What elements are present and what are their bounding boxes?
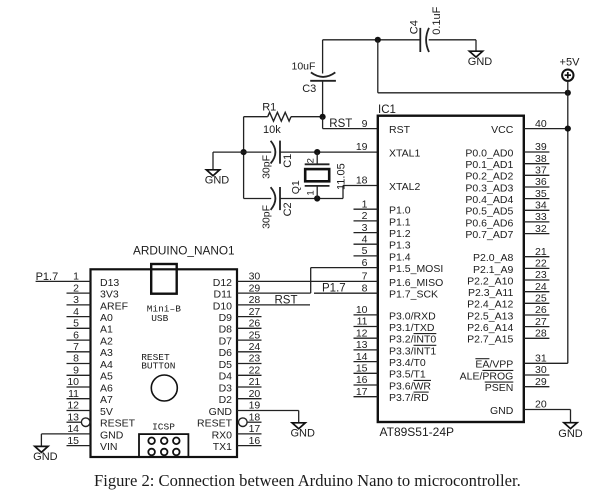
wire rail to C1 (244, 151, 272, 153)
svg-text:GND: GND (290, 427, 315, 439)
svg-text:31: 31 (535, 353, 547, 365)
IC1 pin 14 P3.4/T0 (354, 351, 426, 369)
svg-text:17: 17 (356, 386, 368, 398)
label ICSP (152, 421, 175, 432)
svg-text:A0: A0 (100, 312, 113, 324)
svg-text:22: 22 (535, 258, 547, 270)
svg-text:30pF: 30pF (261, 205, 273, 229)
IC1 pin 25 P2.4_A12 (467, 293, 549, 311)
ARDUINO_NANO1 pin 14 GND (41, 423, 123, 446)
svg-text:A3: A3 (100, 347, 113, 359)
svg-text:A4: A4 (100, 359, 113, 371)
IC1 pin 2 P1.1 (354, 210, 411, 228)
svg-text:P1.7_SCK: P1.7_SCK (389, 289, 438, 301)
crystal Q1 (305, 152, 330, 198)
svg-text:24: 24 (249, 341, 261, 353)
capacitor C4 (420, 28, 429, 52)
wire P1.7 to IC pin 8 (314, 292, 378, 294)
svg-text:P1.5_MOSI: P1.5_MOSI (389, 263, 443, 275)
IC1 pin 4 P1.3 (354, 233, 411, 251)
icsp header (139, 434, 188, 457)
svg-text:19: 19 (249, 400, 261, 412)
svg-text:AT89S51-24P: AT89S51-24P (380, 425, 455, 439)
svg-text:13: 13 (67, 411, 79, 423)
ARDUINO_NANO1 pin 2 3V3 (67, 282, 119, 300)
svg-text:TX1: TX1 (213, 441, 232, 453)
svg-text:EA/VPP: EA/VPP (475, 359, 513, 371)
wire C1 to XTAL1 (280, 151, 378, 153)
svg-text:P3.6/WR: P3.6/WR (389, 380, 431, 392)
label 30pF C1 (261, 155, 273, 179)
IC1 pin 1 P1.0 (354, 198, 411, 216)
capacitor C1 (271, 141, 280, 164)
svg-text:ALE/PROG: ALE/PROG (460, 370, 514, 382)
svg-text:R1: R1 (262, 101, 276, 113)
svg-text:10uF: 10uF (292, 60, 316, 72)
svg-text:11: 11 (357, 316, 368, 328)
wire rail to C2 (244, 198, 272, 200)
svg-text:GND: GND (33, 451, 58, 463)
wire RST jog to IC pin 9 (323, 117, 378, 129)
capacitor C2 (271, 187, 280, 210)
label 0.1uF (431, 6, 443, 34)
net label P1.7 at nano pin 1 (36, 271, 59, 283)
svg-text:23: 23 (535, 269, 547, 281)
IC1 pin 8 P1.7_SCK (362, 282, 438, 300)
IC1 pin 24 P2.3_A11 (468, 281, 549, 299)
IC1 pin 37 P0.2_AD2 (465, 165, 549, 183)
IC1 pin 21 P2.0_A8 (473, 246, 549, 264)
svg-text:D3: D3 (219, 382, 233, 394)
svg-text:P3.3/INT1: P3.3/INT1 (389, 345, 436, 357)
ARDUINO_NANO1 pin 18 RESET (197, 411, 262, 429)
svg-text:34: 34 (535, 200, 547, 212)
svg-text:16: 16 (249, 435, 261, 447)
svg-text:P0.0_AD0: P0.0_AD0 (465, 147, 513, 159)
svg-text:P2.6_A14: P2.6_A14 (467, 322, 513, 334)
label AT89S51-24P (380, 425, 455, 439)
ARDUINO_NANO1 pin 22 D4 (219, 365, 262, 383)
svg-text:40: 40 (535, 118, 547, 130)
svg-text:13: 13 (356, 339, 368, 351)
svg-text:C4: C4 (408, 20, 420, 34)
svg-text:12: 12 (356, 327, 368, 339)
svg-text:P0.3_AD3: P0.3_AD3 (465, 182, 513, 194)
svg-text:0.1uF: 0.1uF (431, 6, 443, 34)
svg-text:Figure 2: Connection between A: Figure 2: Connection between Arduino Nan… (94, 471, 521, 490)
svg-text:P3.2/INT0: P3.2/INT0 (389, 334, 436, 346)
svg-text:P0.7_AD7: P0.7_AD7 (465, 229, 513, 241)
svg-text:P2.0_A8: P2.0_A8 (473, 252, 513, 264)
svg-text:24: 24 (535, 281, 547, 293)
ARDUINO_NANO1 pin 30 D12 (213, 271, 378, 289)
svg-text:4: 4 (73, 306, 79, 318)
svg-text:33: 33 (535, 211, 547, 223)
module ARDUINO_NANO1 body (91, 269, 238, 457)
wire junction to +5V rail (378, 92, 568, 94)
svg-text:A2: A2 (100, 336, 113, 348)
svg-text:4: 4 (362, 233, 368, 245)
svg-text:28: 28 (249, 294, 261, 306)
svg-text:29: 29 (249, 282, 261, 294)
ARDUINO_NANO1 pin 16 TX1 (213, 435, 262, 453)
svg-text:D12: D12 (213, 277, 232, 289)
svg-text:D10: D10 (213, 300, 232, 312)
IC1 pin 13 P3.3/INT1 (354, 339, 437, 357)
power +5V (560, 56, 581, 81)
svg-text:5: 5 (73, 318, 79, 330)
IC1 pin 12 P3.2/INT0 (354, 327, 437, 345)
net label RST at nano pin 28 (275, 295, 298, 307)
ARDUINO_NANO1 pin 4 A0 (67, 306, 114, 324)
IC1 pin 15 P3.5/T1 (354, 363, 426, 381)
ARDUINO_NANO1 pin 10 A6 (67, 376, 114, 394)
IC1 pin 19 XTAL1 (356, 141, 421, 159)
svg-text:P2.4_A12: P2.4_A12 (467, 299, 513, 311)
svg-text:11: 11 (68, 388, 79, 400)
ARDUINO_NANO1 pin 25 D7 (219, 329, 262, 347)
ARDUINO_NANO1 pin 1 D13 (36, 271, 120, 289)
label 10k (263, 124, 281, 136)
pin 1 crystal (305, 190, 316, 195)
ARDUINO_NANO1 pin 5 A1 (67, 318, 114, 336)
svg-text:38: 38 (535, 153, 547, 165)
svg-text:D8: D8 (219, 324, 233, 336)
svg-text:D11: D11 (214, 289, 233, 301)
pin 2 crystal (305, 158, 316, 163)
ARDUINO_NANO1 pin 26 D8 (219, 318, 262, 336)
svg-text:GND: GND (490, 405, 514, 417)
svg-text:A7: A7 (100, 394, 113, 406)
label 10uF (292, 60, 316, 72)
ARDUINO_NANO1 pin 6 A2 (67, 329, 114, 347)
svg-text:P1.1: P1.1 (389, 216, 411, 228)
svg-text:+5V: +5V (560, 56, 581, 68)
ARDUINO_NANO1 pin 7 A3 (67, 341, 114, 359)
label 11.05 (336, 163, 348, 190)
svg-text:RX0: RX0 (212, 429, 233, 441)
IC1 pin 9 RST (362, 118, 411, 136)
svg-text:P1.7: P1.7 (322, 282, 346, 294)
svg-text:A5: A5 (100, 371, 113, 383)
ARDUINO_NANO1 pin 23 D5 (219, 353, 262, 371)
svg-text:37: 37 (535, 165, 547, 177)
IC1 pin 35 P0.4_AD4 (465, 188, 549, 206)
svg-text:6: 6 (73, 329, 79, 341)
capacitor C3 (310, 72, 336, 80)
IC1 pin 3 P1.2 (354, 222, 411, 240)
junction top rail (375, 37, 381, 43)
svg-text:GND: GND (205, 174, 230, 186)
svg-text:P2.7_A15: P2.7_A15 (467, 334, 513, 346)
svg-text:GND: GND (468, 56, 493, 68)
svg-text:P0.4_AD4: P0.4_AD4 (465, 194, 513, 206)
svg-text:10k: 10k (263, 124, 281, 136)
svg-text:RST: RST (389, 124, 411, 136)
svg-text:25: 25 (249, 329, 261, 341)
ARDUINO_NANO1 pin 8 A4 (67, 353, 114, 371)
svg-text:2: 2 (73, 282, 79, 294)
svg-text:XTAL1: XTAL1 (389, 147, 420, 159)
svg-text:D13: D13 (100, 277, 119, 289)
svg-text:P3.1/TXD: P3.1/TXD (389, 322, 435, 334)
svg-text:P1.7: P1.7 (36, 271, 59, 283)
IC1 pin 39 P0.0_AD0 (465, 141, 549, 159)
svg-text:3V3: 3V3 (100, 289, 119, 301)
svg-text:A6: A6 (100, 382, 113, 394)
svg-text:VIN: VIN (100, 441, 118, 453)
svg-text:8: 8 (73, 353, 79, 365)
svg-text:15: 15 (356, 363, 368, 375)
svg-text:14: 14 (356, 351, 368, 363)
junction crystal pin2 node (314, 149, 320, 155)
svg-text:D9: D9 (219, 312, 233, 324)
IC1 pin 16 P3.6/WR (354, 374, 432, 392)
svg-text:5: 5 (362, 245, 368, 257)
svg-text:C2: C2 (282, 202, 294, 216)
svg-text:P1.6_MISO: P1.6_MISO (389, 277, 443, 289)
svg-text:20: 20 (535, 399, 547, 411)
svg-text:39: 39 (535, 141, 547, 153)
ARDUINO_NANO1 pin 17 RX0 (212, 423, 262, 441)
svg-text:D7: D7 (219, 336, 233, 348)
svg-text:P3.5/T1: P3.5/T1 (389, 369, 426, 381)
svg-text:36: 36 (535, 176, 547, 188)
IC1 pin 32 P0.7_AD7 (465, 223, 549, 241)
ARDUINO_NANO1 pin 29 D11 (214, 268, 378, 301)
svg-text:C1: C1 (282, 154, 294, 168)
IC1 pin 38 P0.1_AD1 (465, 153, 549, 171)
label Q1 (290, 180, 302, 194)
ARDUINO_NANO1 pin 11 A7 (67, 388, 114, 406)
svg-text:30: 30 (535, 364, 547, 376)
svg-text:16: 16 (356, 374, 368, 386)
svg-text:26: 26 (249, 318, 261, 330)
svg-text:25: 25 (535, 293, 547, 305)
svg-text:RST: RST (275, 295, 298, 307)
wire +5V down rail (567, 81, 569, 363)
svg-text:30pF: 30pF (261, 155, 273, 179)
svg-text:GND: GND (100, 429, 124, 441)
usb connector (151, 264, 177, 294)
svg-text:1: 1 (305, 190, 316, 195)
svg-text:RST: RST (329, 118, 352, 130)
ground crystal GND (205, 170, 230, 187)
svg-text:18: 18 (356, 175, 368, 187)
IC1 pin 23 P2.2_A10 (467, 269, 549, 287)
svg-text:GND: GND (558, 428, 583, 440)
wire C3 top lead (322, 40, 324, 74)
svg-text:15: 15 (67, 435, 79, 447)
IC1 pin 36 P0.3_AD3 (465, 176, 549, 194)
svg-text:7: 7 (73, 341, 79, 353)
IC1 pin 18 XTAL2 (356, 175, 421, 193)
ARDUINO_NANO1 pin 3 AREF (67, 294, 129, 312)
IC1 pin 11 P3.1/TXD (354, 316, 435, 334)
IC1 pin 27 P2.6_A14 (467, 316, 549, 334)
IC1 pin 40 VCC (491, 118, 568, 136)
IC1 pin 31 EA/VPP (475, 353, 567, 371)
IC1 pin 28 P2.7_A15 (467, 328, 549, 346)
svg-text:P1.4: P1.4 (389, 251, 411, 263)
resistor R1 (244, 112, 323, 121)
label C1 (282, 154, 294, 168)
ARDUINO_NANO1 pin 24 D6 (219, 341, 262, 359)
label 30pF C2 (261, 205, 273, 229)
svg-text:10: 10 (67, 376, 79, 388)
svg-text:C3: C3 (302, 83, 316, 95)
IC1 pin 30 ALE/PROG (460, 364, 550, 382)
svg-text:9: 9 (362, 118, 368, 130)
svg-text:P3.0/RXD: P3.0/RXD (389, 310, 436, 322)
svg-text:27: 27 (249, 306, 261, 318)
ARDUINO_NANO1 pin 28 D10 (213, 294, 310, 312)
label ARDUINO_NANO1 (133, 244, 235, 258)
svg-text:P2.5_A13: P2.5_A13 (467, 310, 513, 322)
ground IC1 GND pin 20 (558, 423, 583, 440)
svg-text:17: 17 (249, 423, 261, 435)
svg-text:20: 20 (249, 388, 261, 400)
svg-text:D6: D6 (219, 347, 233, 359)
label Mini-B USB (147, 303, 182, 324)
svg-text:2: 2 (305, 158, 316, 163)
junction RST node (320, 114, 326, 120)
wire +5V/VCC net: C3 top to C4 (323, 39, 421, 41)
wire C3 bottom lead (322, 81, 324, 117)
svg-text:30: 30 (249, 271, 261, 283)
svg-text:RESET: RESET (100, 418, 136, 430)
svg-text:XTAL2: XTAL2 (389, 181, 420, 193)
svg-text:P3.4/T0: P3.4/T0 (389, 357, 426, 369)
svg-text:14: 14 (67, 423, 79, 435)
svg-text:GND: GND (209, 406, 233, 418)
svg-text:27: 27 (535, 316, 547, 328)
ARDUINO_NANO1 pin 27 D9 (219, 306, 262, 324)
svg-text:1: 1 (362, 198, 368, 210)
svg-text:P1.3: P1.3 (389, 240, 411, 252)
IC1 pin 34 P0.5_AD5 (465, 200, 549, 218)
wire left rail (243, 117, 245, 199)
junction +5V rail (565, 90, 571, 96)
svg-text:35: 35 (535, 188, 547, 200)
svg-text:10: 10 (356, 304, 368, 316)
svg-text:19: 19 (356, 141, 368, 153)
caption (94, 471, 521, 490)
svg-text:P0.2_AD2: P0.2_AD2 (465, 171, 513, 183)
ARDUINO_NANO1 pin 15 VIN (67, 435, 118, 453)
ARDUINO_NANO1 pin 13 RESET (67, 411, 136, 429)
IC1 pin 5 P1.4 (354, 245, 411, 263)
ARDUINO_NANO1 pin 21 D3 (219, 376, 262, 394)
ground C4 (468, 51, 493, 68)
svg-text:21: 21 (535, 246, 547, 258)
IC1 pin 22 P2.1_A9 (473, 258, 549, 276)
IC1 pin 17 P3.7/RD (354, 386, 430, 404)
svg-text:BUTTON: BUTTON (141, 361, 175, 372)
ground nano GND pin 14 (33, 446, 58, 463)
ARDUINO_NANO1 pin 19 GND (209, 400, 299, 423)
svg-text:P1.0: P1.0 (389, 205, 411, 217)
svg-text:ICSP: ICSP (152, 421, 175, 432)
svg-text:P3.7/RD: P3.7/RD (389, 392, 429, 404)
label IC1 (378, 104, 396, 116)
svg-text:RESET: RESET (197, 418, 233, 430)
IC1 pin 33 P0.6_AD6 (465, 211, 549, 229)
ARDUINO_NANO1 pin 9 A5 (67, 365, 114, 383)
label R1 (262, 101, 276, 113)
svg-text:PSEN: PSEN (485, 382, 514, 394)
svg-text:USB: USB (151, 313, 168, 324)
net label RST at IC1 pin 9 (329, 118, 352, 130)
svg-text:D5: D5 (219, 359, 233, 371)
svg-text:IC1: IC1 (378, 104, 396, 116)
IC1 pin 26 P2.5_A13 (467, 304, 549, 322)
svg-text:VCC: VCC (491, 124, 514, 136)
svg-text:P0.6_AD6: P0.6_AD6 (465, 217, 513, 229)
label C4 (408, 20, 420, 34)
svg-text:29: 29 (535, 376, 547, 388)
svg-text:A1: A1 (100, 324, 113, 336)
op-amp IC1 body (AT89S51 box) (378, 116, 524, 422)
svg-text:P2.2_A10: P2.2_A10 (467, 275, 513, 287)
IC1 pin 6 P1.5_MOSI (362, 257, 444, 275)
junction VCC pin 40 (565, 126, 571, 132)
svg-text:P0.5_AD5: P0.5_AD5 (465, 206, 513, 218)
svg-text:23: 23 (249, 353, 261, 365)
ARDUINO_NANO1 pin 20 D2 (219, 388, 262, 406)
svg-text:P0.1_AD1: P0.1_AD1 (465, 159, 513, 171)
svg-text:P2.1_A9: P2.1_A9 (473, 264, 513, 276)
svg-text:9: 9 (73, 365, 79, 377)
IC1 pin 20 GND (490, 399, 571, 423)
wire junction down (377, 40, 379, 93)
svg-text:D4: D4 (219, 371, 233, 383)
svg-text:3: 3 (362, 222, 368, 234)
junction C1 node (241, 149, 247, 155)
IC1 pin 29 PSEN (485, 376, 550, 394)
ground nano GND pin 19 (290, 423, 315, 440)
junction crystal pin1 node (314, 195, 320, 201)
ARDUINO_NANO1 pin 12 5V (67, 400, 113, 418)
wire C4 to GND (429, 40, 476, 51)
svg-text:AREF: AREF (100, 300, 128, 312)
svg-text:32: 32 (535, 223, 547, 235)
svg-text:26: 26 (535, 304, 547, 316)
wire GND branch (213, 152, 244, 170)
IC1 pin 10 P3.0/RXD (354, 304, 437, 322)
svg-text:ARDUINO_NANO1: ARDUINO_NANO1 (133, 244, 235, 258)
svg-text:22: 22 (249, 365, 261, 377)
svg-text:3: 3 (73, 294, 79, 306)
svg-text:28: 28 (535, 328, 547, 340)
wire C2 to XTAL2 jog (280, 186, 378, 199)
label C3 (302, 83, 316, 95)
reset button (151, 375, 177, 401)
svg-text:21: 21 (249, 376, 261, 388)
svg-text:Q1: Q1 (290, 180, 302, 194)
svg-text:1: 1 (73, 271, 79, 283)
label C2 (282, 202, 294, 216)
svg-text:P2.3_A11: P2.3_A11 (468, 287, 514, 299)
svg-text:D2: D2 (219, 394, 233, 406)
svg-text:18: 18 (249, 411, 261, 423)
svg-text:P1.2: P1.2 (389, 228, 411, 240)
IC1 pin 7 P1.6_MISO (362, 271, 444, 289)
net label P1.7 at IC pin 8 (322, 282, 346, 294)
svg-text:2: 2 (362, 210, 368, 222)
svg-text:11.05: 11.05 (336, 163, 348, 190)
svg-text:5V: 5V (100, 406, 113, 418)
